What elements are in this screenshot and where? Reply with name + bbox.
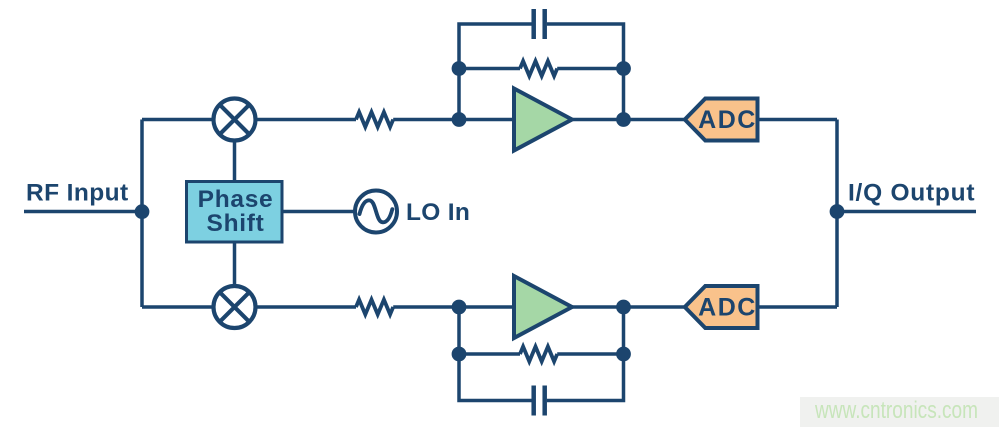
svg-text:LO In: LO In — [406, 199, 470, 226]
svg-text:www.cntronics.com: www.cntronics.com — [814, 397, 978, 424]
svg-text:Phase: Phase — [198, 186, 274, 213]
svg-text:Shift: Shift — [207, 210, 265, 237]
svg-text:ADC: ADC — [698, 293, 757, 321]
svg-text:ADC: ADC — [698, 106, 757, 134]
svg-text:I/Q Output: I/Q Output — [848, 179, 975, 206]
svg-text:RF Input: RF Input — [26, 180, 129, 207]
